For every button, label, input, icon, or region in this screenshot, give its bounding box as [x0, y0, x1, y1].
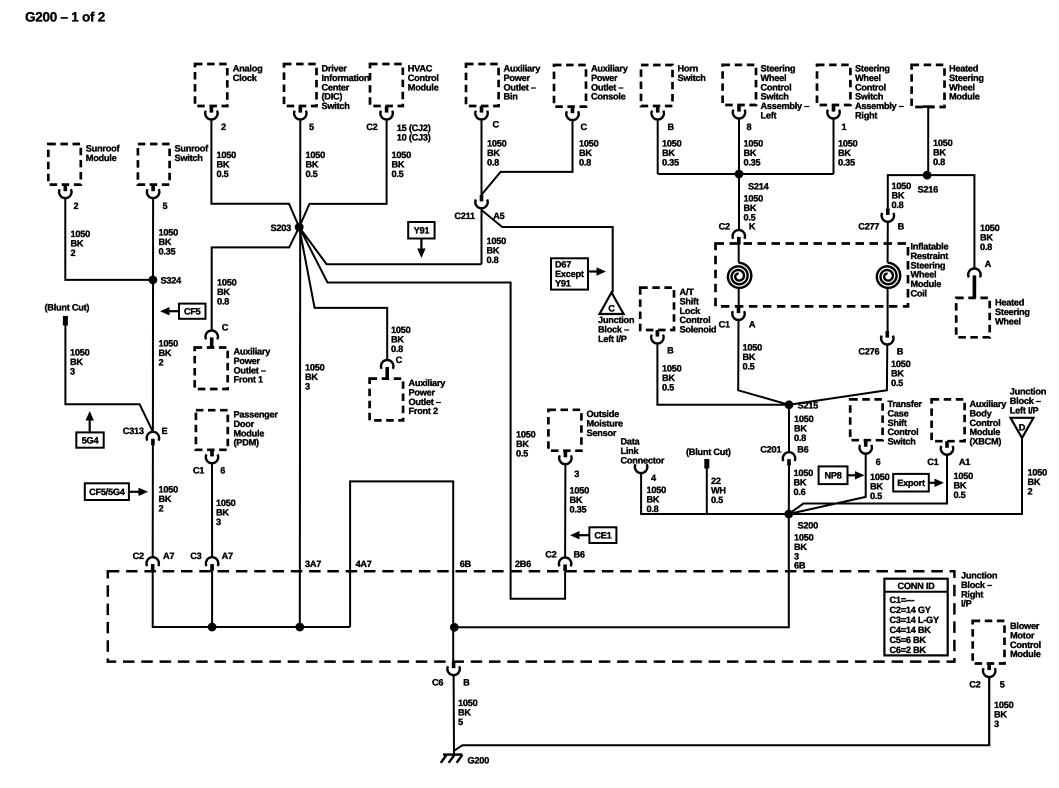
- svg-text:0.35: 0.35: [662, 157, 679, 167]
- svg-text:Wheel: Wheel: [995, 316, 1021, 326]
- svg-text:0.5: 0.5: [743, 361, 755, 371]
- svg-text:G200: G200: [468, 756, 490, 766]
- svg-text:C1: C1: [927, 457, 938, 467]
- svg-text:(Blunt Cut): (Blunt Cut): [45, 303, 90, 313]
- svg-text:0.5: 0.5: [306, 169, 318, 179]
- svg-text:0.5: 0.5: [954, 490, 966, 500]
- svg-text:(Blunt Cut): (Blunt Cut): [686, 447, 731, 457]
- svg-text:C277: C277: [858, 222, 879, 232]
- svg-text:8: 8: [747, 122, 752, 132]
- svg-text:3: 3: [305, 381, 310, 391]
- svg-text:6: 6: [876, 457, 881, 467]
- svg-text:C2: C2: [366, 122, 377, 132]
- svg-text:2: 2: [71, 248, 76, 258]
- svg-text:(PDM): (PDM): [234, 438, 259, 448]
- svg-text:Switch: Switch: [322, 101, 351, 111]
- svg-text:C6=2 BK: C6=2 BK: [890, 645, 927, 655]
- svg-text:B: B: [667, 346, 674, 356]
- svg-text:Front 1: Front 1: [234, 375, 264, 385]
- svg-text:S215: S215: [798, 401, 819, 411]
- svg-text:Right: Right: [855, 111, 877, 121]
- svg-text:C2: C2: [133, 551, 144, 561]
- svg-text:A1: A1: [959, 457, 970, 467]
- svg-text:Sensor: Sensor: [587, 428, 617, 438]
- svg-text:B6: B6: [574, 550, 585, 560]
- svg-text:S200: S200: [798, 521, 819, 531]
- svg-text:C2=14 GY: C2=14 GY: [890, 605, 931, 615]
- svg-text:A: A: [985, 259, 992, 269]
- svg-text:Left I/P: Left I/P: [1010, 405, 1039, 415]
- svg-text:2: 2: [221, 122, 226, 132]
- svg-text:5: 5: [1000, 680, 1005, 690]
- svg-text:C: C: [608, 304, 615, 314]
- svg-text:2: 2: [74, 201, 79, 211]
- svg-text:0.8: 0.8: [487, 255, 499, 265]
- svg-text:2: 2: [1028, 486, 1033, 496]
- svg-text:B: B: [668, 122, 675, 132]
- svg-text:0.35: 0.35: [744, 157, 761, 167]
- svg-text:S203: S203: [271, 223, 292, 233]
- svg-text:A7: A7: [163, 551, 174, 561]
- svg-text:Bin: Bin: [504, 92, 519, 102]
- svg-text:3: 3: [574, 469, 579, 479]
- svg-text:0.8: 0.8: [487, 157, 499, 167]
- svg-text:B: B: [898, 222, 905, 232]
- svg-text:CF5: CF5: [184, 307, 201, 317]
- svg-text:2: 2: [159, 357, 164, 367]
- svg-text:6B: 6B: [794, 561, 806, 571]
- svg-text:3: 3: [994, 719, 999, 729]
- svg-text:6: 6: [220, 466, 225, 476]
- svg-text:A: A: [749, 320, 756, 330]
- svg-text:G200 – 1 of 2: G200 – 1 of 2: [25, 10, 105, 25]
- svg-text:0.35: 0.35: [570, 504, 587, 514]
- svg-text:Module: Module: [1010, 649, 1041, 659]
- svg-text:5G4: 5G4: [82, 435, 100, 445]
- svg-text:0.8: 0.8: [980, 242, 992, 252]
- svg-text:0.6: 0.6: [794, 487, 806, 497]
- svg-text:0.35: 0.35: [159, 246, 176, 256]
- svg-text:I/P: I/P: [961, 599, 972, 609]
- svg-text:C6: C6: [432, 678, 443, 688]
- svg-text:C211: C211: [454, 211, 475, 221]
- svg-text:C: C: [581, 122, 588, 132]
- svg-text:B: B: [897, 347, 904, 357]
- svg-text:Y91: Y91: [414, 226, 430, 236]
- svg-text:0.8: 0.8: [892, 200, 904, 210]
- svg-text:Clock: Clock: [233, 73, 258, 83]
- svg-text:C: C: [493, 120, 500, 130]
- svg-text:B6: B6: [797, 445, 808, 455]
- svg-text:5: 5: [309, 122, 314, 132]
- svg-text:C2: C2: [969, 680, 980, 690]
- svg-text:Export: Export: [897, 478, 925, 488]
- svg-text:Console: Console: [591, 92, 626, 102]
- svg-text:NP8: NP8: [824, 471, 841, 481]
- svg-text:0.5: 0.5: [870, 491, 882, 501]
- svg-text:(XBCM): (XBCM): [970, 437, 1002, 447]
- svg-text:C1: C1: [193, 466, 204, 476]
- svg-text:0.5: 0.5: [516, 448, 528, 458]
- svg-text:5: 5: [163, 201, 168, 211]
- svg-text:C313: C313: [123, 426, 144, 436]
- svg-text:0.8: 0.8: [391, 344, 403, 354]
- svg-text:Y91: Y91: [555, 278, 571, 288]
- svg-text:C201: C201: [760, 445, 781, 455]
- svg-text:Left I/P: Left I/P: [598, 334, 627, 344]
- svg-text:C1=---: C1=---: [890, 595, 915, 605]
- svg-text:B: B: [463, 678, 470, 688]
- svg-text:Coil: Coil: [911, 289, 927, 299]
- svg-text:C3: C3: [190, 551, 201, 561]
- svg-text:0.5: 0.5: [392, 169, 404, 179]
- svg-text:4A7: 4A7: [356, 559, 372, 569]
- svg-text:C1: C1: [719, 320, 730, 330]
- svg-text:Front 2: Front 2: [409, 406, 439, 416]
- svg-text:Switch: Switch: [888, 437, 917, 447]
- svg-text:0.8: 0.8: [933, 157, 945, 167]
- svg-text:C5=6 BK: C5=6 BK: [890, 635, 927, 645]
- svg-text:S324: S324: [161, 276, 183, 286]
- svg-text:0.8: 0.8: [647, 504, 659, 514]
- svg-text:C2: C2: [545, 550, 556, 560]
- svg-text:Solenoid: Solenoid: [680, 325, 717, 335]
- svg-text:3A7: 3A7: [305, 559, 321, 569]
- svg-text:C276: C276: [858, 347, 879, 357]
- svg-text:2B6: 2B6: [515, 559, 531, 569]
- svg-text:CF5/5G4: CF5/5G4: [89, 487, 126, 497]
- svg-text:Switch: Switch: [678, 73, 707, 83]
- svg-text:0.5: 0.5: [711, 495, 723, 505]
- svg-text:0.8: 0.8: [794, 433, 806, 443]
- svg-text:Left: Left: [761, 111, 777, 121]
- svg-text:6B: 6B: [460, 559, 472, 569]
- svg-text:0.5: 0.5: [662, 382, 674, 392]
- svg-text:0.5: 0.5: [217, 169, 229, 179]
- svg-text:S216: S216: [918, 185, 939, 195]
- svg-text:2: 2: [159, 503, 164, 513]
- svg-text:1: 1: [842, 122, 847, 132]
- svg-text:CONN ID: CONN ID: [897, 581, 935, 591]
- svg-text:A7: A7: [222, 551, 233, 561]
- svg-text:0.35: 0.35: [838, 157, 855, 167]
- svg-text:Connector: Connector: [621, 455, 665, 465]
- svg-text:C2: C2: [719, 222, 730, 232]
- svg-text:10 (CJ3): 10 (CJ3): [397, 133, 431, 143]
- svg-text:C: C: [396, 355, 403, 365]
- svg-text:15 (CJ2): 15 (CJ2): [397, 123, 431, 133]
- svg-text:0.8: 0.8: [579, 157, 591, 167]
- svg-text:S214: S214: [748, 182, 770, 192]
- svg-text:C3=14 L-GY: C3=14 L-GY: [890, 615, 939, 625]
- svg-text:Module: Module: [86, 153, 117, 163]
- svg-text:0.8: 0.8: [217, 296, 229, 306]
- svg-text:CE1: CE1: [594, 531, 611, 541]
- svg-text:3: 3: [216, 517, 221, 527]
- svg-text:C4=14 BK: C4=14 BK: [890, 625, 932, 635]
- svg-text:5: 5: [458, 717, 463, 727]
- svg-text:A5: A5: [493, 211, 504, 221]
- svg-text:Module: Module: [408, 82, 439, 92]
- svg-text:K: K: [749, 222, 756, 232]
- svg-text:C: C: [222, 323, 229, 333]
- svg-text:Switch: Switch: [175, 153, 204, 163]
- svg-text:E: E: [162, 426, 168, 436]
- svg-text:0.5: 0.5: [891, 378, 903, 388]
- svg-text:D: D: [1019, 423, 1026, 433]
- svg-text:Module: Module: [949, 92, 980, 102]
- svg-text:3: 3: [70, 366, 75, 376]
